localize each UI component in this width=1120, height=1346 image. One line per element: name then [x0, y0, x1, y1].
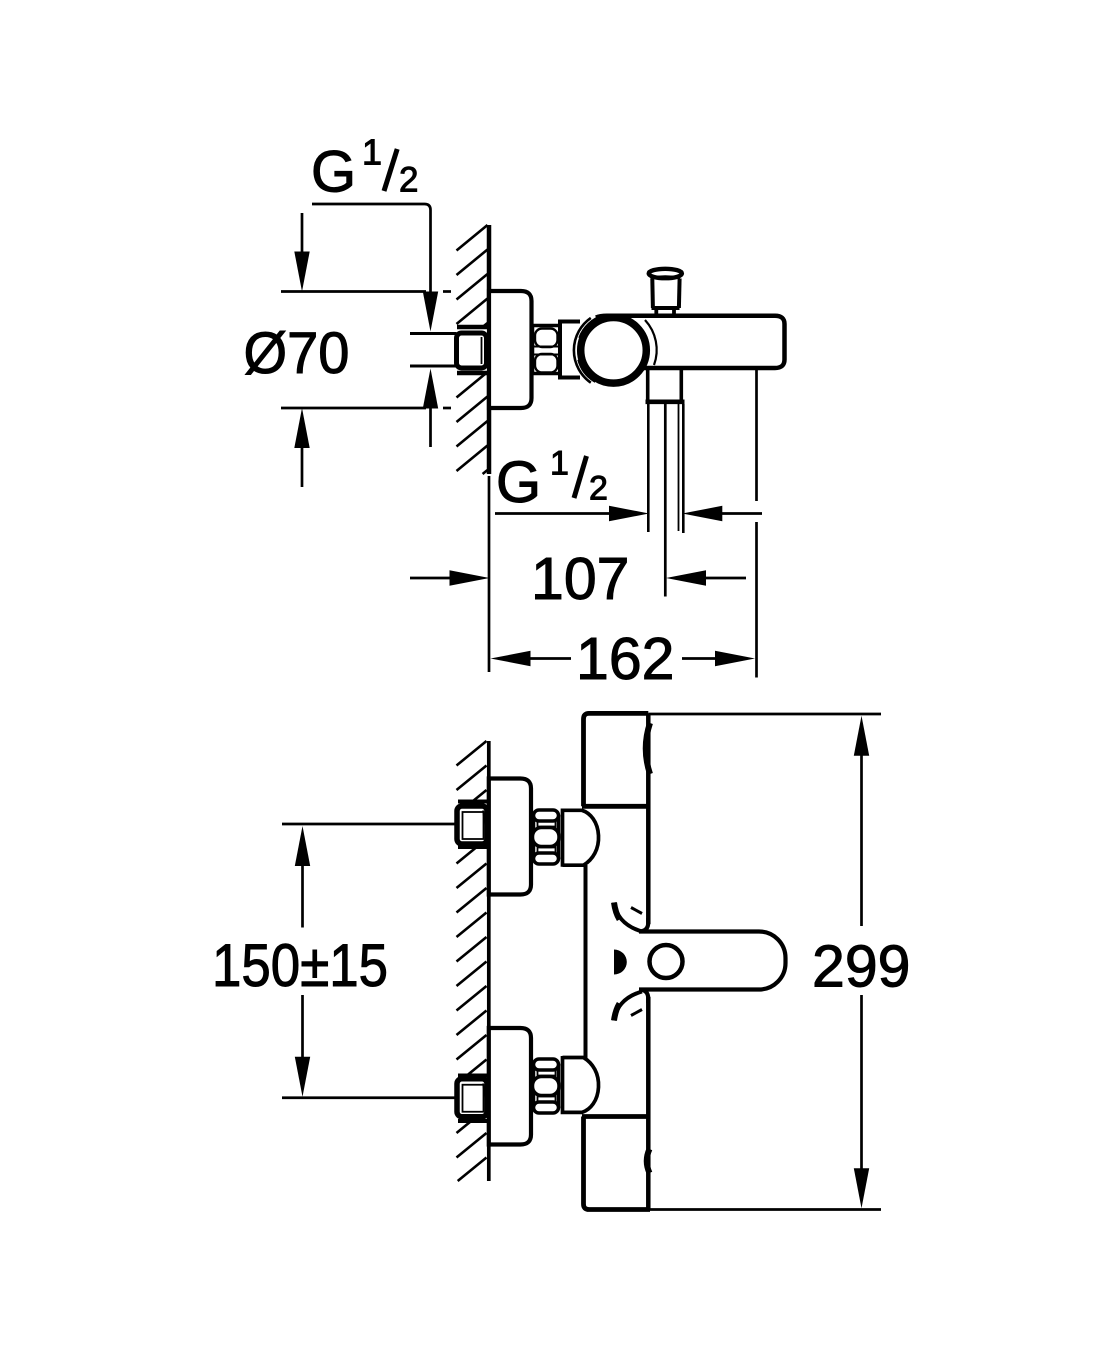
handle / lever finger	[639, 918, 786, 1003]
knob back-plate arc (left)	[574, 318, 591, 383]
upper inlet horn	[563, 810, 599, 867]
valve body block	[560, 324, 584, 376]
flow mark (dark crescent)	[614, 950, 627, 975]
150±15 dimension line	[301, 865, 304, 928]
texts, top drawing	[244, 131, 675, 692]
299 dimension line	[860, 754, 863, 926]
arrowhead G1/2 pipe bottom	[423, 369, 438, 409]
Ø70 arrow shafts	[301, 213, 304, 254]
arrowhead 299 bottom	[854, 1168, 869, 1208]
arrowhead 162 left	[491, 651, 531, 666]
upper flange (escutcheon)	[489, 779, 531, 895]
white-outs behind union nuts	[455, 801, 489, 849]
svg-text:Ø70: Ø70	[244, 321, 350, 386]
upper union collar segments	[458, 800, 487, 804]
handshower outlet nipple	[646, 368, 650, 400]
arrowhead Ø70 lower	[294, 408, 309, 448]
arrowhead 150±15 bottom	[295, 1057, 310, 1097]
svg-text:1: 1	[362, 131, 382, 172]
white-out behind union nut	[455, 325, 489, 375]
body cylinder silhouette arc (right of knob)	[645, 320, 657, 365]
hose center extension line	[664, 404, 667, 597]
wall line (bottom drawing)	[487, 741, 491, 1181]
lower union collar segments	[458, 1074, 487, 1078]
G1/2 (2nd) dimension line	[495, 512, 612, 515]
svg-text:2: 2	[399, 161, 418, 200]
union collar segments	[457, 325, 487, 330]
G1/2 label leader	[312, 204, 431, 294]
body left edge (middle)	[584, 865, 588, 1058]
wall flange (escutcheon)	[489, 291, 532, 408]
arrowhead G1/2 pipe top	[423, 292, 438, 332]
knob ring thick top-left shading	[582, 318, 605, 339]
lower square union nut	[457, 1079, 487, 1117]
arrowhead Ø70 upper	[294, 252, 309, 292]
diverter knob cup	[650, 279, 655, 309]
spout bar	[596, 316, 785, 368]
temperature knob ring	[581, 318, 647, 384]
svg-text:1: 1	[550, 445, 569, 483]
svg-text:2: 2	[589, 470, 608, 508]
G1/2 lower arrow shaft	[429, 407, 432, 448]
svg-text:G: G	[496, 450, 541, 515]
svg-text:G: G	[311, 140, 356, 205]
arrowhead 107 left	[450, 570, 490, 585]
body top cap section	[584, 713, 649, 806]
svg-text:162: 162	[576, 626, 674, 692]
Ø70 extension lines	[281, 290, 426, 293]
hex nut (side view)	[533, 326, 561, 374]
upper swoosh	[614, 903, 642, 932]
top cap highlight arc	[646, 723, 650, 774]
wall line (top drawing)	[487, 225, 492, 474]
upper square union nut	[457, 806, 487, 844]
body bottom cap section	[584, 1117, 651, 1210]
right extension line (162)	[755, 367, 758, 501]
wall face extension line	[488, 476, 491, 672]
wall hatching (bottom drawing)	[457, 741, 487, 1181]
lower supply pipe	[282, 1096, 456, 1099]
union nut inner edge	[481, 337, 483, 364]
lower flange (escutcheon)	[489, 1028, 531, 1145]
handle circle	[650, 945, 683, 978]
arrowhead 150±15 top	[295, 826, 310, 866]
diverter knob cap (mushroom rim)	[649, 269, 682, 278]
svg-text:150±15: 150±15	[212, 932, 388, 999]
bottom cap highlight arc	[647, 1149, 650, 1173]
lower hex nut (front view)	[533, 1059, 560, 1113]
arrowhead G1/2 hose left	[609, 506, 649, 521]
arrowhead 162 right	[715, 651, 755, 666]
arrowhead 299 top	[854, 716, 869, 756]
shower hose	[647, 404, 650, 532]
wall hatching (top drawing)	[457, 225, 488, 474]
diverter knob stem	[654, 308, 658, 316]
inlet pipe	[410, 332, 457, 335]
upper hex nut (front view)	[533, 810, 560, 864]
lower swoosh	[614, 992, 642, 1021]
lower inlet horn	[563, 1056, 599, 1112]
arrowhead 107 right	[666, 570, 706, 585]
svg-text:299: 299	[812, 934, 910, 1000]
107 dimension	[410, 577, 452, 580]
299 extension lines	[649, 713, 882, 716]
square union nut (behind wall)	[457, 333, 487, 368]
arrowhead G1/2 hose right	[682, 506, 722, 521]
upper supply pipe	[282, 823, 456, 826]
body right edge segments	[646, 713, 651, 924]
162 dimension	[529, 657, 572, 660]
svg-text:107: 107	[531, 546, 629, 612]
